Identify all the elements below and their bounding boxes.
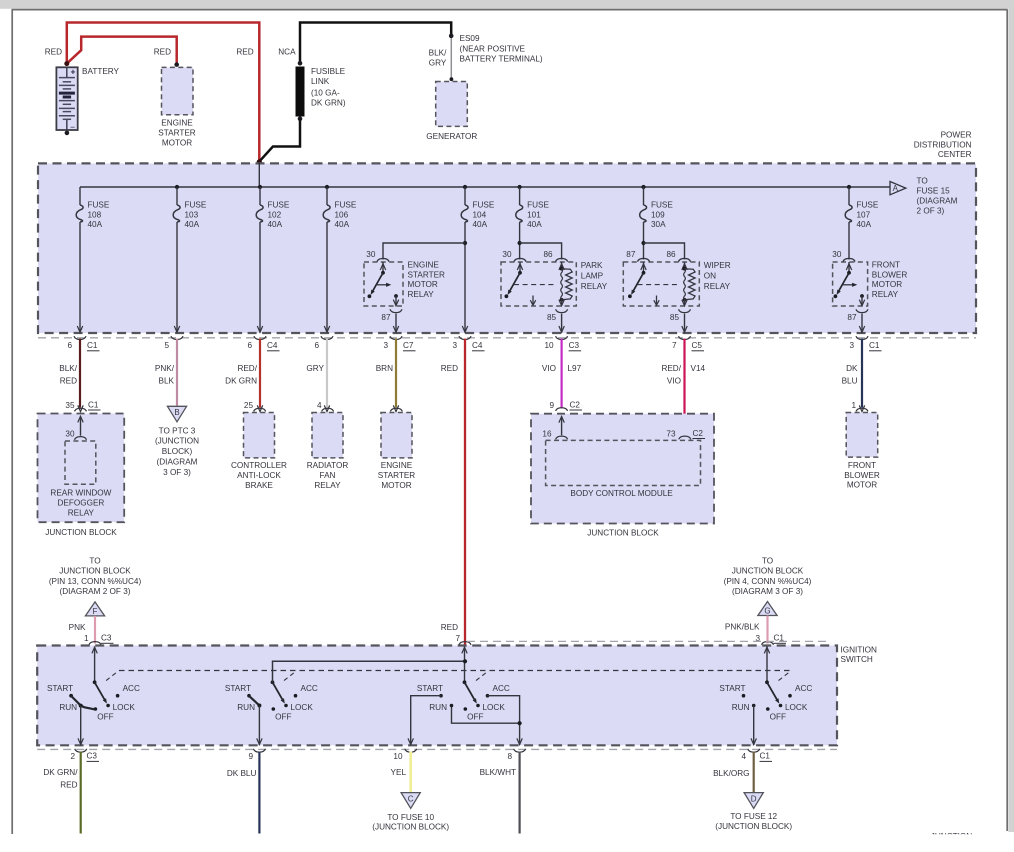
svg-text:FUSE: FUSE <box>335 201 357 210</box>
svg-text:LAMP: LAMP <box>581 272 604 281</box>
label RED 2 <box>154 47 171 56</box>
svg-text:FUSE: FUSE <box>651 201 673 210</box>
wire DK BLU switch2 <box>258 752 260 834</box>
svg-text:FAN: FAN <box>320 471 336 480</box>
fuse F109 30A <box>640 187 647 222</box>
connector pin 3 C7 <box>383 336 415 351</box>
svg-text:107: 107 <box>857 210 871 219</box>
junction block boundary gray dashed under PDC <box>38 337 976 339</box>
wire PDC feed <box>258 163 260 187</box>
svg-text:FRONT: FRONT <box>848 461 876 470</box>
svg-text:FUSIBLE: FUSIBLE <box>311 67 346 76</box>
svg-text:C4: C4 <box>267 341 278 350</box>
svg-text:C1: C1 <box>88 400 99 409</box>
svg-text:1: 1 <box>851 401 856 410</box>
svg-text:RED/: RED/ <box>661 364 681 373</box>
svg-text:(JUNCTION: (JUNCTION <box>155 437 199 446</box>
svg-text:MOTOR: MOTOR <box>872 280 902 289</box>
page border right <box>1006 10 1008 831</box>
svg-text:40A: 40A <box>527 220 542 229</box>
rwdr internal arrow <box>78 416 83 436</box>
battery negative terminal dot <box>65 131 70 136</box>
ignition switch pole 1 <box>47 647 140 745</box>
arrow F from junction block <box>85 602 104 616</box>
battery <box>56 66 77 132</box>
body control module inner box <box>546 440 701 485</box>
svg-text:BLK/ORG: BLK/ORG <box>713 769 749 778</box>
svg-text:RELAY: RELAY <box>872 290 899 299</box>
junction fuse104/relay30 <box>463 241 467 245</box>
junction fuse109 branch <box>641 241 645 245</box>
wire fuse 106 to pin 6 <box>324 222 329 332</box>
pin 4 connector <box>317 401 334 412</box>
bottom white clip <box>0 834 1014 852</box>
svg-text:B: B <box>174 408 179 417</box>
svg-text:START: START <box>719 684 745 693</box>
svg-text:BODY CONTROL MODULE: BODY CONTROL MODULE <box>570 489 673 498</box>
pin 35 C1 connector <box>65 400 100 411</box>
ignition switch box <box>37 646 837 746</box>
fuse F106 40A <box>323 187 330 222</box>
svg-text:73: 73 <box>666 429 676 438</box>
label PNK <box>69 623 86 632</box>
engine starter motor box <box>162 67 194 114</box>
wire branch to park relay 86 <box>520 243 562 260</box>
wire fuse 104 to pin 3C4 <box>462 222 467 332</box>
svg-text:STARTER: STARTER <box>408 270 446 279</box>
svg-text:ES09: ES09 <box>460 34 480 43</box>
ignition switch pole 3 <box>408 647 522 745</box>
svg-text:ENGINE: ENGINE <box>161 119 193 128</box>
fuse F101 40A <box>516 187 523 222</box>
svg-text:35: 35 <box>65 401 75 410</box>
fuse F107 label <box>857 201 879 230</box>
svg-text:IGNITION: IGNITION <box>841 646 877 655</box>
svg-text:TO: TO <box>89 556 100 565</box>
svg-text:4: 4 <box>741 752 746 761</box>
svg-text:F: F <box>93 607 98 616</box>
svg-text:3 OF 3): 3 OF 3) <box>163 468 191 477</box>
svg-text:40A: 40A <box>268 220 283 229</box>
arrow A to fuse 15 <box>890 182 906 195</box>
junction block label bcm <box>587 529 659 538</box>
bus junction dots <box>175 185 851 189</box>
svg-text:DEFOGGER: DEFOGGER <box>57 499 104 508</box>
svg-text:(DIAGRAM: (DIAGRAM <box>157 458 198 467</box>
svg-text:9: 9 <box>549 401 554 410</box>
wire fuse 108 to pin 6 <box>77 222 82 332</box>
svg-text:START: START <box>47 684 73 693</box>
svg-text:ON: ON <box>704 272 716 281</box>
svg-text:(DIAGRAM 2 OF 3): (DIAGRAM 2 OF 3) <box>60 587 131 596</box>
svg-text:FRONT: FRONT <box>872 261 900 270</box>
svg-text:C1: C1 <box>869 341 880 350</box>
svg-text:RED: RED <box>60 377 77 386</box>
relay K3 pin 85 <box>670 309 691 332</box>
wire BRN <box>393 339 398 412</box>
wiper on relay label <box>704 261 731 291</box>
svg-text:101: 101 <box>527 210 541 219</box>
wire branch to wiper relay 86 <box>644 243 685 260</box>
body control module label <box>570 489 673 498</box>
wire PNK <box>94 616 96 644</box>
front blower motor box <box>846 413 878 458</box>
svg-text:ACC: ACC <box>493 684 510 693</box>
svg-text:RED/: RED/ <box>237 364 257 373</box>
label RED/VIO <box>661 364 705 386</box>
wire RED fuse104 to ignition <box>464 339 466 645</box>
rear window defogger junction block box <box>38 414 125 523</box>
svg-text:LOCK: LOCK <box>785 703 808 712</box>
wire YEL <box>409 752 412 793</box>
controller anti-lock brake box <box>244 413 275 458</box>
arrow C to fuse 10 <box>401 793 420 809</box>
svg-text:RED: RED <box>60 780 77 789</box>
right gray strip <box>1008 0 1014 832</box>
connector pin 7 C5 <box>672 336 704 351</box>
wire RED/VIO <box>682 339 687 439</box>
label RED 1 <box>45 47 62 56</box>
park lamp relay box <box>501 262 576 306</box>
svg-text:FUSE: FUSE <box>185 201 207 210</box>
svg-text:(PIN 4, CONN %%UC4): (PIN 4, CONN %%UC4) <box>724 577 812 586</box>
pin 3 C1 connector <box>755 634 786 645</box>
svg-text:C1: C1 <box>760 752 771 761</box>
svg-text:BATTERY TERMINAL): BATTERY TERMINAL) <box>460 55 543 64</box>
front blower motor relay label <box>872 261 908 299</box>
svg-text:D: D <box>751 794 757 803</box>
svg-text:BLU: BLU <box>842 377 858 386</box>
label DK BLU <box>842 364 858 386</box>
svg-text:LOCK: LOCK <box>291 703 314 712</box>
svg-text:GRY: GRY <box>306 364 324 373</box>
svg-text:RED: RED <box>441 364 458 373</box>
fuse F103 label <box>185 201 207 230</box>
svg-text:9: 9 <box>248 752 253 761</box>
pin 8 connector <box>507 749 525 761</box>
pin 10 connector <box>393 749 416 761</box>
svg-text:MOTOR: MOTOR <box>162 139 192 148</box>
wire fuse 109 to wiper relay <box>643 222 645 260</box>
svg-text:V14: V14 <box>691 364 706 373</box>
relay K3 pin 86 label <box>666 250 676 259</box>
svg-text:CONTROLLER: CONTROLLER <box>231 461 287 470</box>
svg-text:BRAKE: BRAKE <box>245 481 273 490</box>
svg-text:87: 87 <box>847 313 857 322</box>
wire BLK/WHT <box>518 752 520 834</box>
pin 2 C3 connector <box>70 749 99 762</box>
svg-text:A: A <box>893 184 899 193</box>
svg-text:ENGINE: ENGINE <box>408 261 440 270</box>
svg-text:40A: 40A <box>473 220 488 229</box>
svg-text:LINK: LINK <box>311 77 330 86</box>
connector pin 10 C3 <box>544 336 581 351</box>
svg-text:MOTOR: MOTOR <box>381 481 411 490</box>
svg-text:LOCK: LOCK <box>113 703 136 712</box>
fuse F108 label <box>88 201 110 230</box>
svg-text:RELAY: RELAY <box>314 481 341 490</box>
svg-text:85: 85 <box>670 313 680 322</box>
pin 1 connector <box>851 401 868 412</box>
svg-text:7: 7 <box>455 634 460 643</box>
top gray strip <box>0 0 1014 9</box>
fuse F109 label <box>651 201 673 230</box>
svg-text:REAR WINDOW: REAR WINDOW <box>50 489 111 498</box>
engine starter motor connector <box>390 408 402 411</box>
pin 7 connector <box>455 634 471 645</box>
svg-text:SWITCH: SWITCH <box>841 655 873 664</box>
label DK BLU switch2 <box>227 769 257 778</box>
label BRN <box>376 364 393 373</box>
rear window defogger relay label <box>50 489 111 518</box>
arrow D to fuse 12 <box>744 793 763 809</box>
svg-text:PNK/: PNK/ <box>155 364 175 373</box>
label PNK/BLK <box>155 364 175 386</box>
wiper on relay box <box>623 262 699 306</box>
svg-text:MOTOR: MOTOR <box>847 481 877 490</box>
svg-text:BLK/WHT: BLK/WHT <box>480 768 516 777</box>
label BLK/GRY <box>429 49 447 68</box>
wire RED battery to engine starter motor <box>67 37 177 64</box>
svg-text:GENERATOR: GENERATOR <box>426 132 477 141</box>
wire fuse 102 to pin 6C4 <box>257 222 262 332</box>
svg-text:30: 30 <box>832 250 842 259</box>
label NCA <box>278 47 296 56</box>
junction label bottom right <box>931 832 972 841</box>
wire GRY <box>324 339 329 412</box>
connector pin 6 C1 <box>67 336 99 351</box>
connector pin 6 C4 <box>247 336 279 351</box>
svg-text:L97: L97 <box>568 364 582 373</box>
to junction block F label <box>49 556 142 596</box>
front blower motor relay box <box>833 262 868 306</box>
wire PNK/BLK <box>176 339 178 406</box>
svg-text:C3: C3 <box>101 634 112 643</box>
svg-text:40A: 40A <box>335 220 350 229</box>
label RED ignition <box>441 623 458 632</box>
svg-text:30A: 30A <box>651 220 666 229</box>
junction fuse101 branch <box>518 241 522 245</box>
relay K4 pin 30 label <box>832 250 842 259</box>
label YEL <box>391 768 407 777</box>
svg-text:C4: C4 <box>472 341 483 350</box>
svg-text:86: 86 <box>666 250 676 259</box>
front blower motor label <box>844 461 880 490</box>
arrow B to PTC 3 <box>167 406 186 422</box>
svg-text:6: 6 <box>314 341 319 350</box>
svg-text:6: 6 <box>67 341 72 350</box>
wiper on relay internals <box>628 258 695 305</box>
relay K1 pin 87 <box>381 309 402 332</box>
svg-text:FUSE: FUSE <box>88 201 110 210</box>
svg-text:10: 10 <box>544 341 554 350</box>
svg-text:4: 4 <box>317 401 322 410</box>
svg-text:(JUNCTION BLOCK): (JUNCTION BLOCK) <box>715 822 792 831</box>
fuse F106 label <box>335 201 357 230</box>
label RED/DK GRN <box>225 364 258 386</box>
svg-text:START: START <box>417 684 443 693</box>
label DK GRN/RED <box>43 768 78 790</box>
svg-text:VIO: VIO <box>542 364 556 373</box>
svg-text:86: 86 <box>543 250 553 259</box>
svg-text:C5: C5 <box>692 341 703 350</box>
engine starter motor relay internals <box>368 258 399 305</box>
svg-text:BLOWER: BLOWER <box>844 471 880 480</box>
svg-text:RADIATOR: RADIATOR <box>307 461 349 470</box>
svg-text:109: 109 <box>651 210 665 219</box>
wire BLK/RED <box>78 339 83 412</box>
svg-text:40A: 40A <box>857 220 872 229</box>
svg-text:2: 2 <box>70 752 75 761</box>
svg-text:OFF: OFF <box>275 713 291 722</box>
svg-text:PARK: PARK <box>581 261 603 270</box>
svg-text:RELAY: RELAY <box>704 282 731 291</box>
svg-text:YEL: YEL <box>391 768 407 777</box>
svg-text:(DIAGRAM 3 OF 3): (DIAGRAM 3 OF 3) <box>732 587 803 596</box>
svg-text:RUN: RUN <box>429 703 447 712</box>
svg-text:30: 30 <box>502 250 512 259</box>
svg-text:BLK/: BLK/ <box>59 364 77 373</box>
svg-text:C1: C1 <box>87 341 98 350</box>
fusible link <box>296 61 305 121</box>
svg-text:108: 108 <box>88 210 102 219</box>
svg-text:DK GRN/: DK GRN/ <box>43 768 78 777</box>
connector pin 3 C4 <box>452 336 484 351</box>
svg-text:TO PTC 3: TO PTC 3 <box>159 426 196 435</box>
svg-text:(JUNCTION BLOCK): (JUNCTION BLOCK) <box>372 822 449 831</box>
mechanical link dashed line <box>119 670 791 672</box>
to fuse 12 label <box>715 812 792 831</box>
pin 1 C3 connector <box>84 634 114 645</box>
svg-text:MOTOR: MOTOR <box>408 280 438 289</box>
svg-text:RED: RED <box>236 47 253 56</box>
ignition switch pole 2 <box>225 661 465 745</box>
svg-text:PNK: PNK <box>69 623 86 632</box>
svg-text:DK BLU: DK BLU <box>227 769 257 778</box>
label BLK/WHT <box>480 768 516 777</box>
fuse F104 label <box>473 201 495 230</box>
svg-text:RUN: RUN <box>237 703 255 712</box>
engine starter motor lower box <box>381 413 412 458</box>
svg-text:FUSE 15: FUSE 15 <box>917 187 951 196</box>
label GRY <box>306 364 324 373</box>
junction block label left <box>45 528 117 537</box>
svg-text:DK GRN): DK GRN) <box>311 99 346 108</box>
svg-text:(10 GA-: (10 GA- <box>311 89 340 98</box>
arrow G from junction block <box>758 602 777 616</box>
wire BLK fusible link to PDC <box>260 119 300 162</box>
junction block boundary gray dashed under ignition switch <box>37 748 837 750</box>
svg-text:STARTER: STARTER <box>158 129 196 138</box>
svg-text:(PIN 13, CONN %%UC4): (PIN 13, CONN %%UC4) <box>49 577 142 586</box>
svg-text:FUSE: FUSE <box>857 201 879 210</box>
pin 4 C1 connector <box>741 749 772 762</box>
wire DK BLU <box>859 339 864 412</box>
svg-text:3: 3 <box>383 341 388 350</box>
svg-text:WIPER: WIPER <box>704 261 731 270</box>
fuse F107 40A <box>845 187 852 222</box>
generator box <box>436 82 468 127</box>
fuse F102 40A <box>256 187 263 222</box>
svg-text:104: 104 <box>473 210 487 219</box>
svg-text:VIO: VIO <box>667 377 681 386</box>
svg-text:PNK/BLK: PNK/BLK <box>725 622 760 631</box>
svg-text:POWER: POWER <box>941 131 972 140</box>
svg-text:ACC: ACC <box>123 684 140 693</box>
svg-text:BLK/: BLK/ <box>429 49 447 58</box>
wire RED battery to PDC <box>67 23 259 162</box>
pin 9 connector <box>248 749 265 761</box>
to fuse 15 label <box>917 177 958 216</box>
svg-text:RELAY: RELAY <box>408 290 435 299</box>
pin 25 connector <box>244 401 266 412</box>
label BLK/ORG <box>713 769 749 778</box>
fusible link label <box>311 67 346 108</box>
connector pin 5 <box>164 336 183 350</box>
wire fuse 107 to blower relay 30 <box>848 222 850 260</box>
svg-text:FUSE: FUSE <box>527 201 549 210</box>
svg-text:FUSE: FUSE <box>268 201 290 210</box>
svg-text:1: 1 <box>84 634 89 643</box>
to fuse 10 label <box>372 813 449 832</box>
svg-text:TO: TO <box>917 177 928 186</box>
svg-text:TO FUSE 10: TO FUSE 10 <box>387 813 434 822</box>
svg-text:OFF: OFF <box>97 713 113 722</box>
page border left <box>11 10 13 834</box>
wire BLK/GRY ES09 to generator <box>450 38 452 78</box>
svg-text:10: 10 <box>393 752 403 761</box>
svg-text:RED: RED <box>154 47 171 56</box>
svg-text:C3: C3 <box>87 752 98 761</box>
svg-text:102: 102 <box>268 210 282 219</box>
svg-text:RUN: RUN <box>59 703 77 712</box>
to PTC 3 label <box>155 426 199 477</box>
svg-text:CENTER: CENTER <box>938 150 972 159</box>
svg-text:87: 87 <box>381 313 391 322</box>
wire PNK/BLK to switch 4 <box>766 616 768 644</box>
svg-text:LOCK: LOCK <box>483 703 506 712</box>
svg-text:3: 3 <box>452 341 457 350</box>
svg-text:RED: RED <box>45 47 62 56</box>
radiator fan relay label <box>307 461 349 490</box>
svg-text:40A: 40A <box>185 220 200 229</box>
svg-text:C2: C2 <box>693 429 704 438</box>
park lamp relay internals <box>505 258 573 305</box>
wire VIO <box>560 339 562 408</box>
connector pin 3 C1 <box>849 336 881 351</box>
svg-text:40A: 40A <box>88 220 103 229</box>
body control module junction block box <box>531 414 714 524</box>
wire BLK/ORG <box>753 752 755 793</box>
svg-text:JUNCTION BLOCK: JUNCTION BLOCK <box>45 528 117 537</box>
svg-text:7: 7 <box>672 341 677 350</box>
svg-text:87: 87 <box>626 250 636 259</box>
front blower motor relay internals <box>834 258 865 305</box>
relay K4 pin 87 <box>847 309 868 332</box>
pin 73 C2 connector <box>666 429 705 440</box>
svg-text:G: G <box>764 606 770 615</box>
svg-text:ANTI-LOCK: ANTI-LOCK <box>237 471 281 480</box>
wire DK GRN/RED <box>80 752 82 834</box>
ignition switch label <box>841 646 877 665</box>
svg-text:30: 30 <box>65 429 75 438</box>
relay K2 pin 30 label <box>502 250 512 259</box>
fuse F104 40A <box>461 187 468 222</box>
park lamp relay label <box>581 261 608 291</box>
engine starter motor lower label <box>378 461 416 490</box>
svg-text:+: + <box>71 66 76 76</box>
wire fuse104 junction to ESM relay 30 <box>383 243 465 260</box>
